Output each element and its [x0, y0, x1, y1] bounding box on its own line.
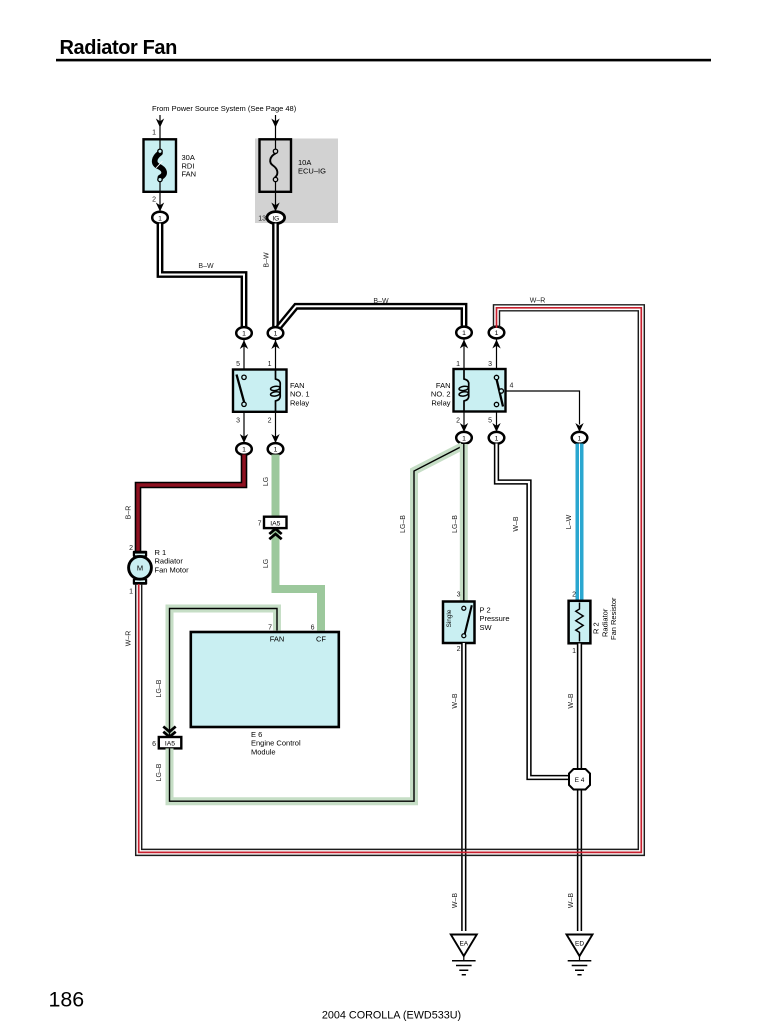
svg-text:1: 1 [129, 589, 133, 596]
svg-text:5: 5 [236, 361, 240, 368]
svg-text:Relay: Relay [431, 398, 450, 407]
arrow into node IG [271, 203, 279, 212]
junction IA5 (7) [264, 517, 287, 540]
node E4 octagon [569, 769, 590, 790]
motor R1 [129, 551, 152, 585]
fuse 30A RDI FAN [144, 135, 177, 211]
svg-text:ED: ED [575, 941, 584, 948]
svg-text:5: 5 [488, 418, 492, 425]
pressure switch P2 [443, 602, 475, 644]
node 1 above relay2 pin3 [489, 327, 505, 349]
svg-text:IA5: IA5 [270, 520, 280, 527]
svg-text:2: 2 [457, 646, 461, 653]
svg-text:Relay: Relay [290, 398, 309, 407]
svg-text:R 2: R 2 [592, 622, 601, 634]
svg-text:NO. 2: NO. 2 [431, 390, 451, 399]
ground EA [451, 935, 477, 975]
svg-text:1: 1 [462, 330, 466, 337]
svg-text:Module: Module [251, 747, 276, 756]
svg-text:B–W: B–W [264, 252, 271, 268]
svg-text:E 6: E 6 [251, 730, 262, 739]
wire relay2 pin4 [506, 391, 580, 425]
wire LG-B relay2 pin2 to pressure switch [460, 444, 468, 602]
wire B-W fuse1 to relay1 pin5 [160, 224, 244, 328]
svg-text:2: 2 [129, 545, 133, 552]
svg-text:2: 2 [572, 592, 576, 599]
svg-text:186: 186 [49, 988, 85, 1012]
svg-text:1: 1 [495, 436, 499, 443]
node 1 above relay1 pin1 [268, 327, 284, 349]
svg-text:1: 1 [242, 331, 246, 338]
svg-text:W–R: W–R [126, 631, 133, 647]
wire B-W branch to relay2 pin1 [279, 306, 465, 327]
relay2 switch [494, 375, 503, 406]
wire LG relay1 pin2 to ECM CF [276, 455, 322, 631]
svg-text:2: 2 [456, 418, 460, 425]
svg-text:ECU–IG: ECU–IG [298, 166, 326, 175]
svg-text:SW: SW [480, 623, 493, 632]
svg-text:From Power Source System (See: From Power Source System (See Page 48) [152, 104, 297, 113]
relay1 pin stubs [244, 339, 276, 443]
svg-text:FAN: FAN [290, 381, 305, 390]
svg-text:1: 1 [456, 361, 460, 368]
svg-text:W–B: W–B [568, 693, 575, 709]
fuse 10A ECU-IG [260, 135, 292, 211]
svg-text:1: 1 [158, 215, 162, 222]
svg-text:Radiator Fan: Radiator Fan [60, 37, 177, 59]
junction IA5 (6) [159, 727, 182, 749]
gray backdrop ECU-IG block [255, 139, 338, 224]
wire LG-B ECM FAN pin loop to IA5 (6) [170, 609, 278, 738]
svg-text:R 1: R 1 [155, 548, 167, 557]
svg-text:3: 3 [457, 592, 461, 599]
svg-text:Pressure: Pressure [480, 614, 510, 623]
svg-text:FAN: FAN [270, 635, 285, 644]
svg-text:Engine Control: Engine Control [251, 739, 301, 748]
node 1 (below 30A fuse) [152, 212, 168, 224]
svg-text:Fan Motor: Fan Motor [155, 565, 190, 574]
node 1 below relay2 pin2 [456, 423, 472, 444]
svg-text:1: 1 [268, 361, 272, 368]
source arrow to fuse 2 [271, 115, 279, 135]
svg-text:CF: CF [316, 635, 326, 644]
svg-text:NO. 1: NO. 1 [290, 390, 310, 399]
svg-text:1: 1 [274, 331, 278, 338]
svg-text:Radiator: Radiator [155, 557, 184, 566]
svg-text:1: 1 [462, 436, 466, 443]
node 1 above relay1 pin5 [236, 327, 252, 349]
wire W-R loop (relay2 pin3 to motor) [136, 305, 645, 856]
svg-text:P 2: P 2 [480, 606, 491, 615]
svg-text:Fan Resistor: Fan Resistor [609, 597, 618, 640]
svg-text:W–B: W–B [568, 893, 575, 909]
node 1 below relay1 pin3 [236, 434, 252, 455]
resistor R2 [569, 601, 591, 644]
wire LG-B IA5 to relay2 pin2 [170, 446, 463, 801]
svg-text:B–W: B–W [198, 263, 214, 270]
wire B-W fuse2 to relay1 pin1 [272, 224, 279, 328]
svg-text:3: 3 [488, 361, 492, 368]
svg-text:IA5: IA5 [165, 741, 175, 748]
wire W-B pressure switch to ground EA [461, 643, 466, 931]
svg-text:6: 6 [311, 625, 315, 632]
relay1 switch [237, 375, 247, 407]
node 1 below relay1 pin2 [268, 434, 284, 455]
svg-text:2: 2 [152, 197, 156, 204]
ECM E6 box [191, 632, 339, 727]
svg-text:3: 3 [236, 418, 240, 425]
svg-text:1: 1 [274, 447, 278, 454]
svg-text:W–B: W–B [452, 693, 459, 709]
svg-text:LG–B: LG–B [156, 679, 163, 697]
relay2 coil [459, 370, 469, 412]
svg-text:W–R: W–R [530, 298, 546, 305]
svg-text:6: 6 [152, 741, 156, 748]
arrow into node 1 [156, 203, 164, 212]
svg-text:W–B: W–B [452, 893, 459, 909]
svg-text:1: 1 [578, 436, 582, 443]
node 1 above relay2 pin1 [456, 327, 472, 349]
relay FAN NO.1 box [233, 370, 287, 412]
wire L-W relay2 pin4 to resistor [576, 444, 584, 601]
svg-text:LG–B: LG–B [400, 515, 407, 533]
ground ED [567, 935, 593, 975]
svg-text:M: M [137, 564, 143, 573]
svg-text:B–W: B–W [373, 298, 389, 305]
node 1 below relay2 pin5 [489, 423, 505, 444]
svg-text:B–R: B–R [126, 506, 133, 520]
svg-text:2004 COROLLA (EWD533U): 2004 COROLLA (EWD533U) [322, 1010, 461, 1022]
svg-text:1: 1 [242, 447, 246, 454]
svg-text:IG: IG [272, 215, 279, 222]
svg-text:W–B: W–B [513, 516, 520, 532]
svg-text:EA: EA [459, 941, 468, 948]
wire W-B resistor to ground ED [577, 644, 582, 932]
svg-text:LG: LG [263, 559, 270, 568]
svg-text:4: 4 [510, 383, 514, 390]
svg-text:LG: LG [263, 477, 270, 486]
svg-text:7: 7 [258, 521, 262, 528]
source arrow to fuse 1 [156, 115, 164, 135]
wire B-R relay1 pin3 to motor [138, 455, 244, 552]
node 1 below relay2 pin4 [572, 423, 588, 444]
svg-text:1: 1 [572, 648, 576, 655]
svg-text:1: 1 [152, 130, 156, 137]
wire W-B relay2 pin5 to E4 [497, 444, 571, 778]
svg-text:13: 13 [258, 216, 266, 223]
svg-text:LG–B: LG–B [156, 763, 163, 781]
relay1 coil [270, 370, 280, 412]
svg-text:FAN: FAN [436, 381, 451, 390]
svg-text:LG–B: LG–B [452, 515, 459, 533]
svg-text:E 4: E 4 [575, 777, 585, 784]
svg-text:1: 1 [495, 330, 499, 337]
node IG [267, 212, 285, 224]
relay2 pin stubs [464, 339, 497, 432]
svg-text:2: 2 [268, 418, 272, 425]
title rule [56, 59, 711, 62]
relay FAN NO.2 box [454, 369, 506, 412]
svg-text:L–W: L–W [566, 514, 573, 529]
svg-text:7: 7 [268, 625, 272, 632]
svg-text:FAN: FAN [182, 170, 197, 179]
svg-text:Single: Single [446, 609, 453, 627]
